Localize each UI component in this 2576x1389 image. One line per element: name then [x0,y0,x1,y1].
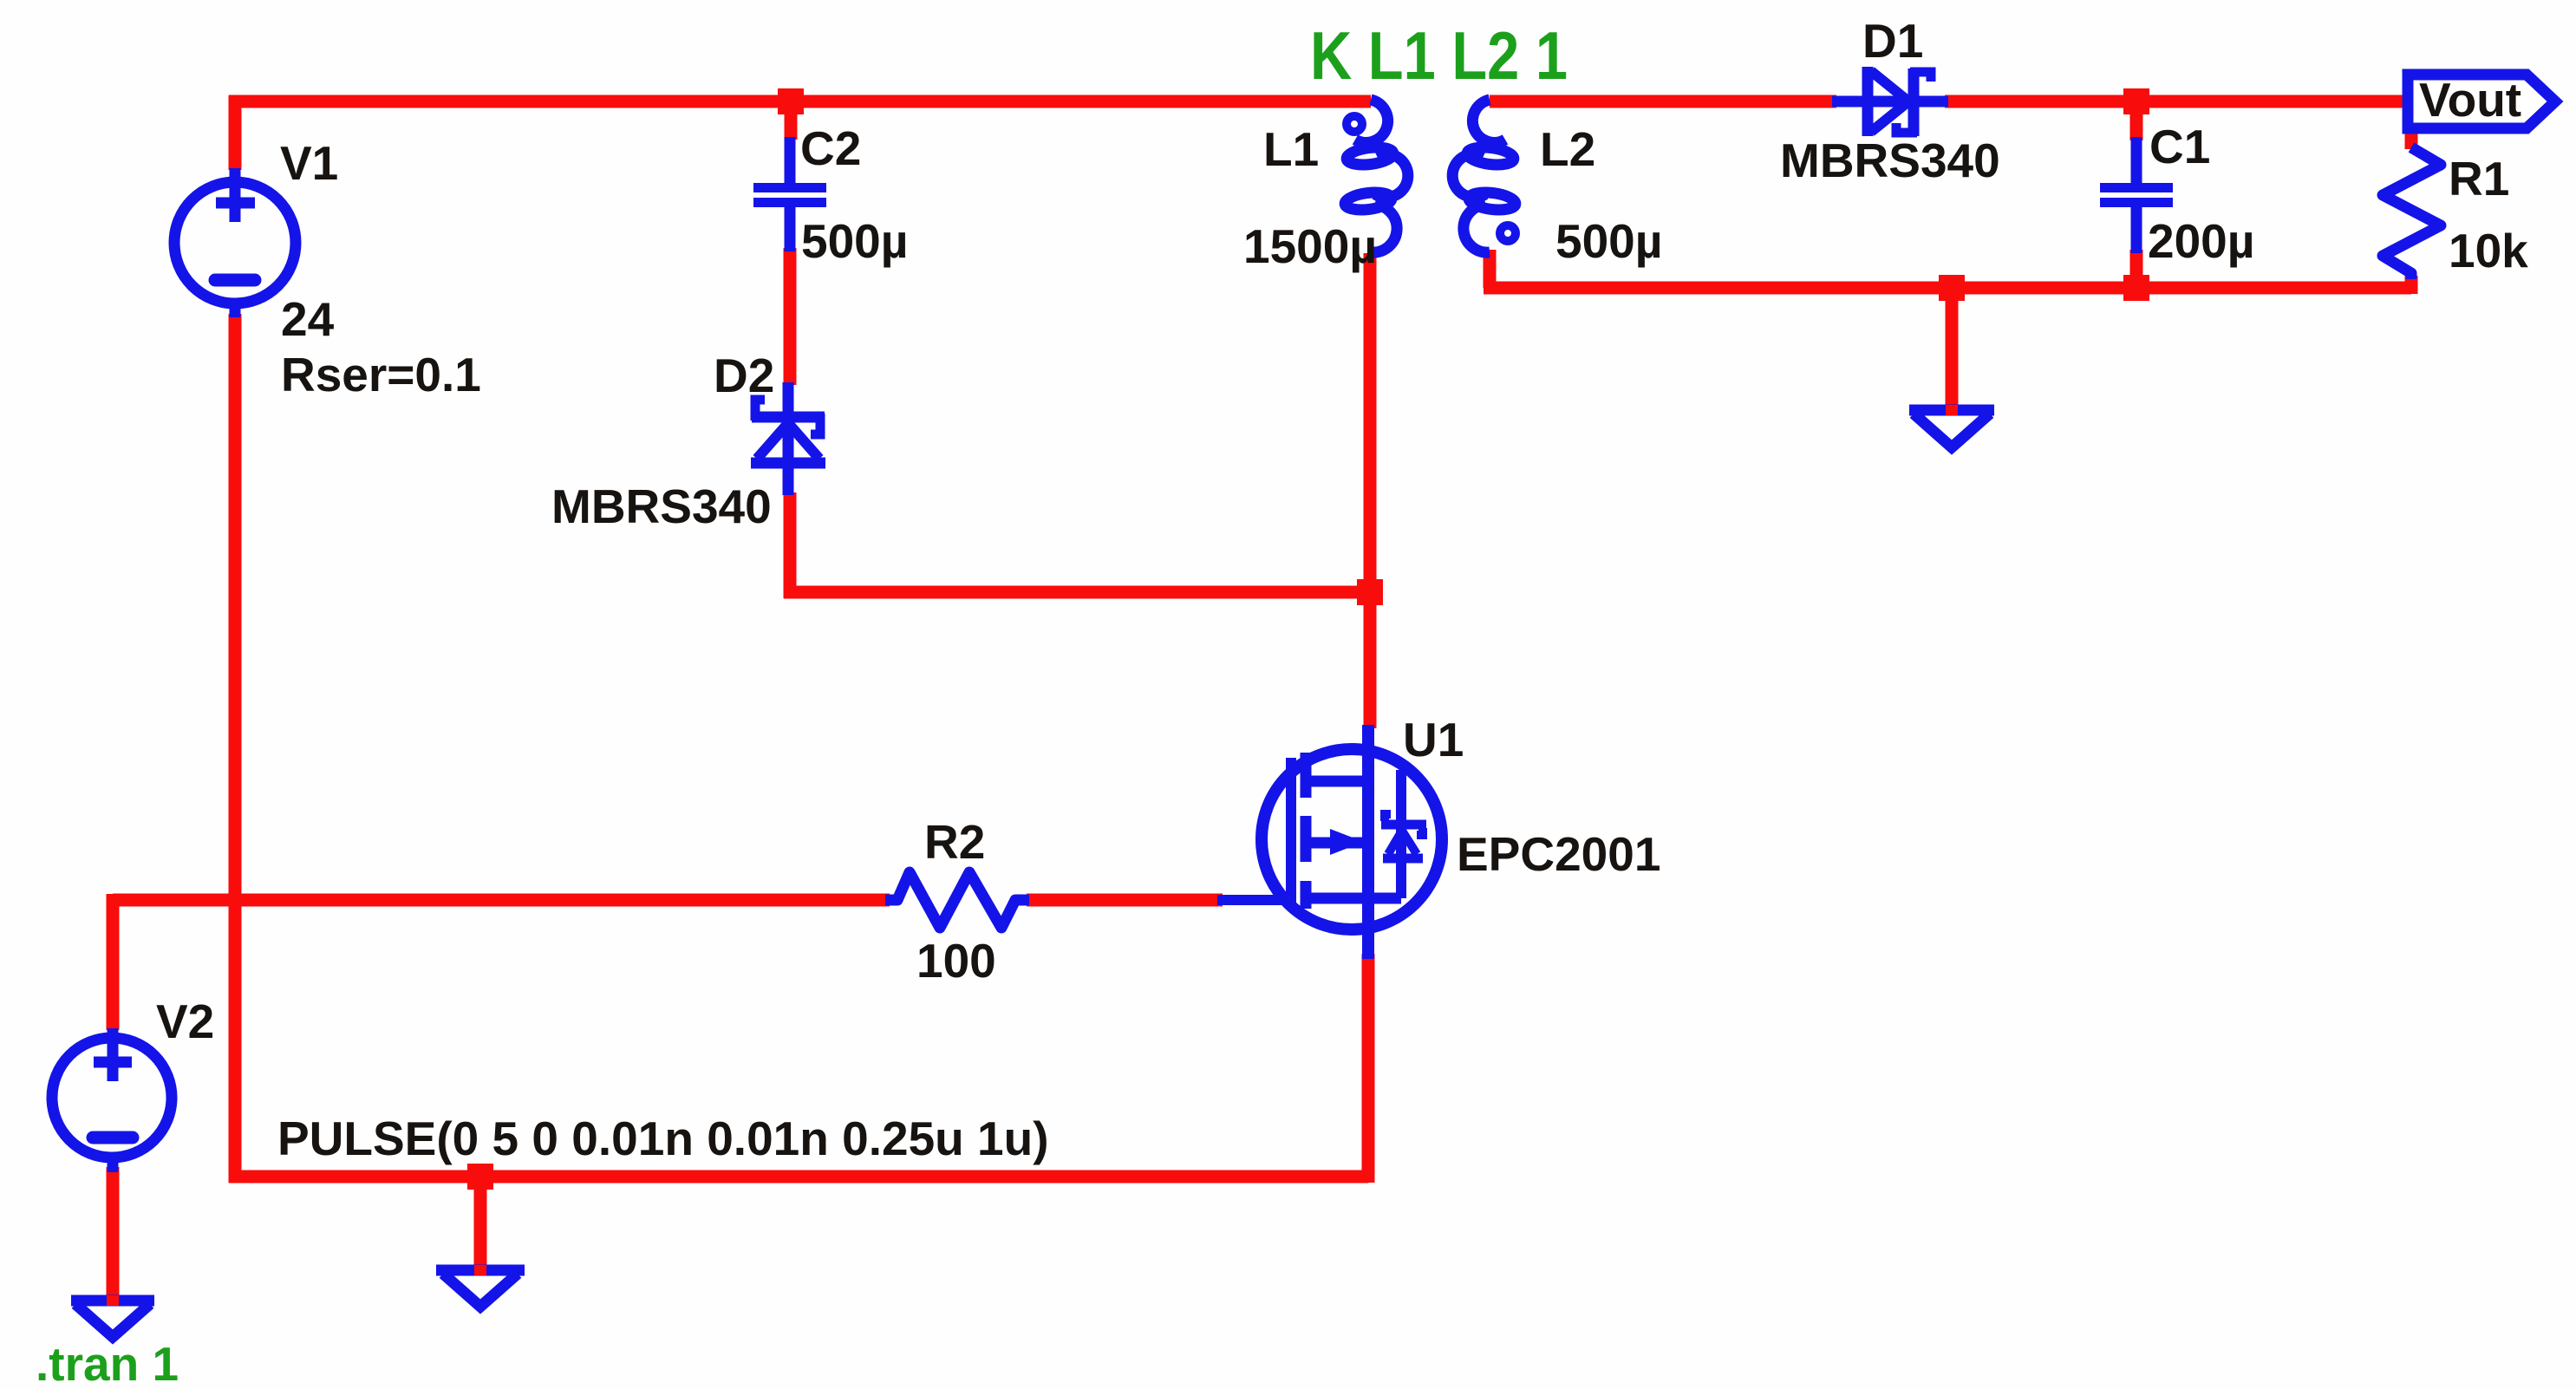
wire D2 horizontal to node [784,586,1370,599]
wire bottom secondary rail [1484,282,2411,295]
wire pulse ground stem [474,1177,487,1272]
junction C1 top [2123,88,2149,114]
wire D1 to Vout [1945,95,2408,108]
wire C2 to D2 [784,248,797,385]
wire secondary ground stem [1946,288,1959,413]
ground V2 [71,1301,154,1337]
svg-text:L1: L1 [1263,122,1319,176]
junction D2 L1 drain node [1357,579,1383,605]
svg-text:200µ: 200µ [2148,214,2254,268]
voltage source V2 [52,1028,172,1172]
wire V1 top stem [229,95,242,170]
ground stem overlaps [113,405,1952,1306]
junction C1 bottom [2123,275,2149,301]
resistor R2 [885,872,1029,928]
svg-text:.tran 1: .tran 1 [36,1337,179,1389]
svg-text:C2: C2 [800,121,861,175]
wire R2 right to gate [1027,894,1223,907]
svg-text:MBRS340: MBRS340 [551,479,772,533]
junction pulse ground [467,1164,493,1190]
ground pulse [436,1270,525,1307]
diode D2 [751,382,825,495]
ground secondary [1909,410,1994,447]
wire L2 top to D1 [1490,95,1836,108]
svg-text:Rser=0.1: Rser=0.1 [281,348,481,401]
svg-text:MBRS340: MBRS340 [1780,134,2000,187]
flag Vout [2408,75,2555,128]
wire L2 bottom stem [1484,250,1497,288]
wire V2 bottom to ground [107,1167,120,1301]
wire V2 top stem [107,894,120,1030]
wire C1 top stem [2130,106,2143,140]
wire C1 bottom stem [2130,250,2143,288]
svg-text:V1: V1 [280,136,338,190]
svg-text:EPC2001: EPC2001 [1457,827,1660,881]
svg-text:R1: R1 [2449,152,2509,205]
wire L1 bottom to drain [1364,253,1377,728]
wire V2 plus to R2 left [113,894,890,907]
capacitor C1 [2100,137,2173,253]
resistor R1 [2383,147,2441,279]
diode D1 [1832,67,1948,136]
junction C2 top [778,88,804,114]
svg-text:L2: L2 [1540,122,1595,176]
svg-text:PULSE(0 5 0 0.01n 0.01n 0.25u: PULSE(0 5 0 0.01n 0.01n 0.25u 1u) [277,1112,1049,1165]
svg-text:24: 24 [281,292,335,346]
inductor L1 primary [1344,100,1408,252]
inductor L2 secondary [1452,100,1516,252]
wire R1 top stem [2405,101,2418,149]
svg-text:500µ: 500µ [1555,214,1662,268]
svg-text:1500µ: 1500µ [1243,219,1377,273]
wire bottom source rail [229,1171,1368,1184]
voltage source V1 [174,168,296,317]
wire R1 bottom stem [2405,276,2418,294]
wire D2 down to corner [784,492,797,598]
wire top rail V1 to L1 [229,95,1371,108]
phase dot L2 [1500,225,1516,241]
svg-text:U1: U1 [1403,713,1464,766]
arrow U1 body [1330,829,1364,855]
svg-text:K L1 L2 1: K L1 L2 1 [1310,17,1568,94]
svg-text:R2: R2 [924,815,985,869]
svg-text:10k: 10k [2449,224,2528,277]
svg-text:500µ: 500µ [801,214,908,268]
capacitor C2 [753,137,826,251]
phase dot L1 [1347,116,1362,132]
wire V1 bottom down left side [229,314,242,1183]
transistor U1 EPC2001 [1217,725,1442,959]
svg-text:V2: V2 [156,994,214,1048]
junction secondary ground [1939,275,1965,301]
svg-text:D1: D1 [1862,14,1923,68]
svg-text:100: 100 [916,934,996,988]
svg-text:C1: C1 [2149,120,2210,173]
svg-text:D2: D2 [714,349,774,402]
svg-text:Vout: Vout [2419,73,2521,127]
wire C2 top stem [785,106,798,140]
wire U1 source down [1362,954,1375,1183]
